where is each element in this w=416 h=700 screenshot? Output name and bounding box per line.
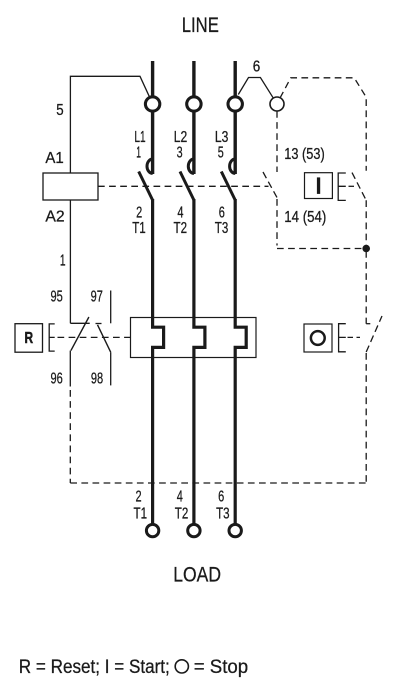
svg-text:LOAD: LOAD	[173, 564, 221, 587]
breaker pole 1 fixed contact hook	[147, 159, 153, 173]
stop button terminal circle	[270, 97, 284, 111]
svg-text:13 (53): 13 (53)	[284, 146, 324, 163]
terminal circle T2	[188, 524, 200, 536]
stop button O glyph	[311, 331, 325, 345]
breaker pole 2 line-side conductor	[192, 61, 195, 174]
reset actuator bracket	[49, 324, 55, 351]
svg-text:L3: L3	[215, 129, 229, 146]
breaker pole 2 fixed contact hook	[188, 159, 194, 173]
start NO contact blade (dashed)	[352, 173, 366, 201]
dashed wire junction down to stop contact	[365, 251, 367, 324]
contactor coil box A1-A2	[43, 173, 98, 200]
start actuator bracket	[338, 173, 346, 200]
svg-text:T2: T2	[175, 506, 189, 523]
svg-text:T1: T1	[134, 506, 148, 523]
wire 96 down	[69, 351, 71, 387]
svg-text:95: 95	[51, 289, 63, 306]
breaker pole 1 blade	[139, 172, 153, 201]
dashed wire stop contact to bottom rail	[365, 353, 367, 483]
wire 98 down	[110, 352, 112, 385]
reset mechanism dashed link	[58, 336, 131, 338]
svg-text:T2: T2	[174, 220, 188, 237]
overload NC contact 95 fixed bar	[70, 322, 89, 324]
terminal circle T3	[229, 524, 241, 536]
overload NO contact 97 terminal	[110, 291, 112, 324]
svg-text:5: 5	[56, 102, 63, 119]
dashed wire stop circle down to aux contact 13	[276, 111, 278, 172]
start button I box	[305, 173, 333, 199]
overload NO contact 97-98 blade	[98, 325, 111, 352]
svg-text:4: 4	[177, 489, 183, 506]
terminal circle L2	[187, 97, 201, 111]
wire 6 (L3 to stop button terminal)	[238, 78, 274, 100]
svg-text:LINE: LINE	[182, 14, 219, 37]
dashed bottom rail	[70, 482, 366, 484]
junction dot	[362, 245, 370, 253]
stop button O box	[304, 324, 332, 352]
svg-text:L2: L2	[174, 129, 188, 146]
terminal circle T1	[146, 524, 158, 536]
svg-text:5: 5	[218, 145, 224, 162]
dashed wire stop circle to start contact (top right)	[280, 78, 366, 171]
svg-text:6: 6	[218, 489, 224, 506]
svg-text:14 (54): 14 (54)	[284, 209, 326, 226]
svg-text:3: 3	[177, 145, 183, 162]
legend stop circle symbol	[175, 660, 188, 673]
breaker pole 3 fixed contact hook	[230, 159, 236, 173]
svg-text:1: 1	[136, 145, 141, 162]
breaker pole 2 load-side conductor with heater	[194, 199, 205, 524]
svg-text:97: 97	[91, 289, 103, 306]
svg-text:2: 2	[136, 489, 142, 506]
reset button R box	[15, 324, 43, 353]
svg-text:6: 6	[253, 59, 261, 76]
start button I glyph	[317, 177, 320, 194]
dashed wire start contact to junction	[365, 200, 367, 246]
stop actuator bracket	[339, 324, 346, 352]
breaker pole 3 blade	[221, 172, 235, 201]
stop mechanism dashed link	[348, 336, 361, 338]
svg-text:96: 96	[51, 370, 63, 387]
dashed wire 96 down to bottom rail	[69, 390, 71, 483]
svg-text:R = Reset; I = Start;: R = Reset; I = Start;	[19, 657, 170, 678]
breaker pole 3 line-side conductor	[233, 61, 236, 174]
overload relay box	[131, 318, 257, 358]
svg-text:T3: T3	[216, 506, 230, 523]
svg-text:A1: A1	[45, 150, 63, 167]
svg-text:= Stop: = Stop	[194, 657, 249, 678]
breaker pole 3 load-side conductor with heater	[235, 199, 246, 524]
svg-text:R: R	[25, 330, 34, 347]
mechanism link dashed (coil - poles - aux contact)	[98, 185, 269, 187]
svg-text:98: 98	[91, 370, 103, 387]
breaker pole 2 blade	[180, 172, 194, 201]
stop NC contact blade (dashed)	[366, 316, 382, 352]
start mechanism dashed link	[349, 185, 358, 187]
terminal circle L3	[228, 97, 242, 111]
svg-text:T1: T1	[132, 220, 146, 237]
aux contact 13-14 blade (dashed)	[263, 172, 277, 198]
dashed wire 14 to junction	[277, 248, 363, 250]
breaker pole 1 load-side conductor with heater	[153, 199, 164, 524]
wire A2 to overload contact 95	[69, 200, 71, 323]
breaker pole 1 line-side conductor	[151, 61, 154, 174]
wire 5 (L1 to coil A1)	[70, 76, 150, 173]
terminal circle L1	[145, 97, 159, 111]
svg-text:1: 1	[60, 253, 66, 270]
overload NO contact 97 fixed bar	[96, 323, 102, 325]
stop NC contact fixed bar	[366, 323, 370, 325]
svg-text:A2: A2	[45, 209, 64, 226]
dashed wire 14 down	[276, 199, 278, 246]
svg-text:L1: L1	[134, 129, 145, 146]
svg-text:T3: T3	[215, 220, 229, 237]
overload NC contact 95-96 blade	[71, 317, 89, 351]
